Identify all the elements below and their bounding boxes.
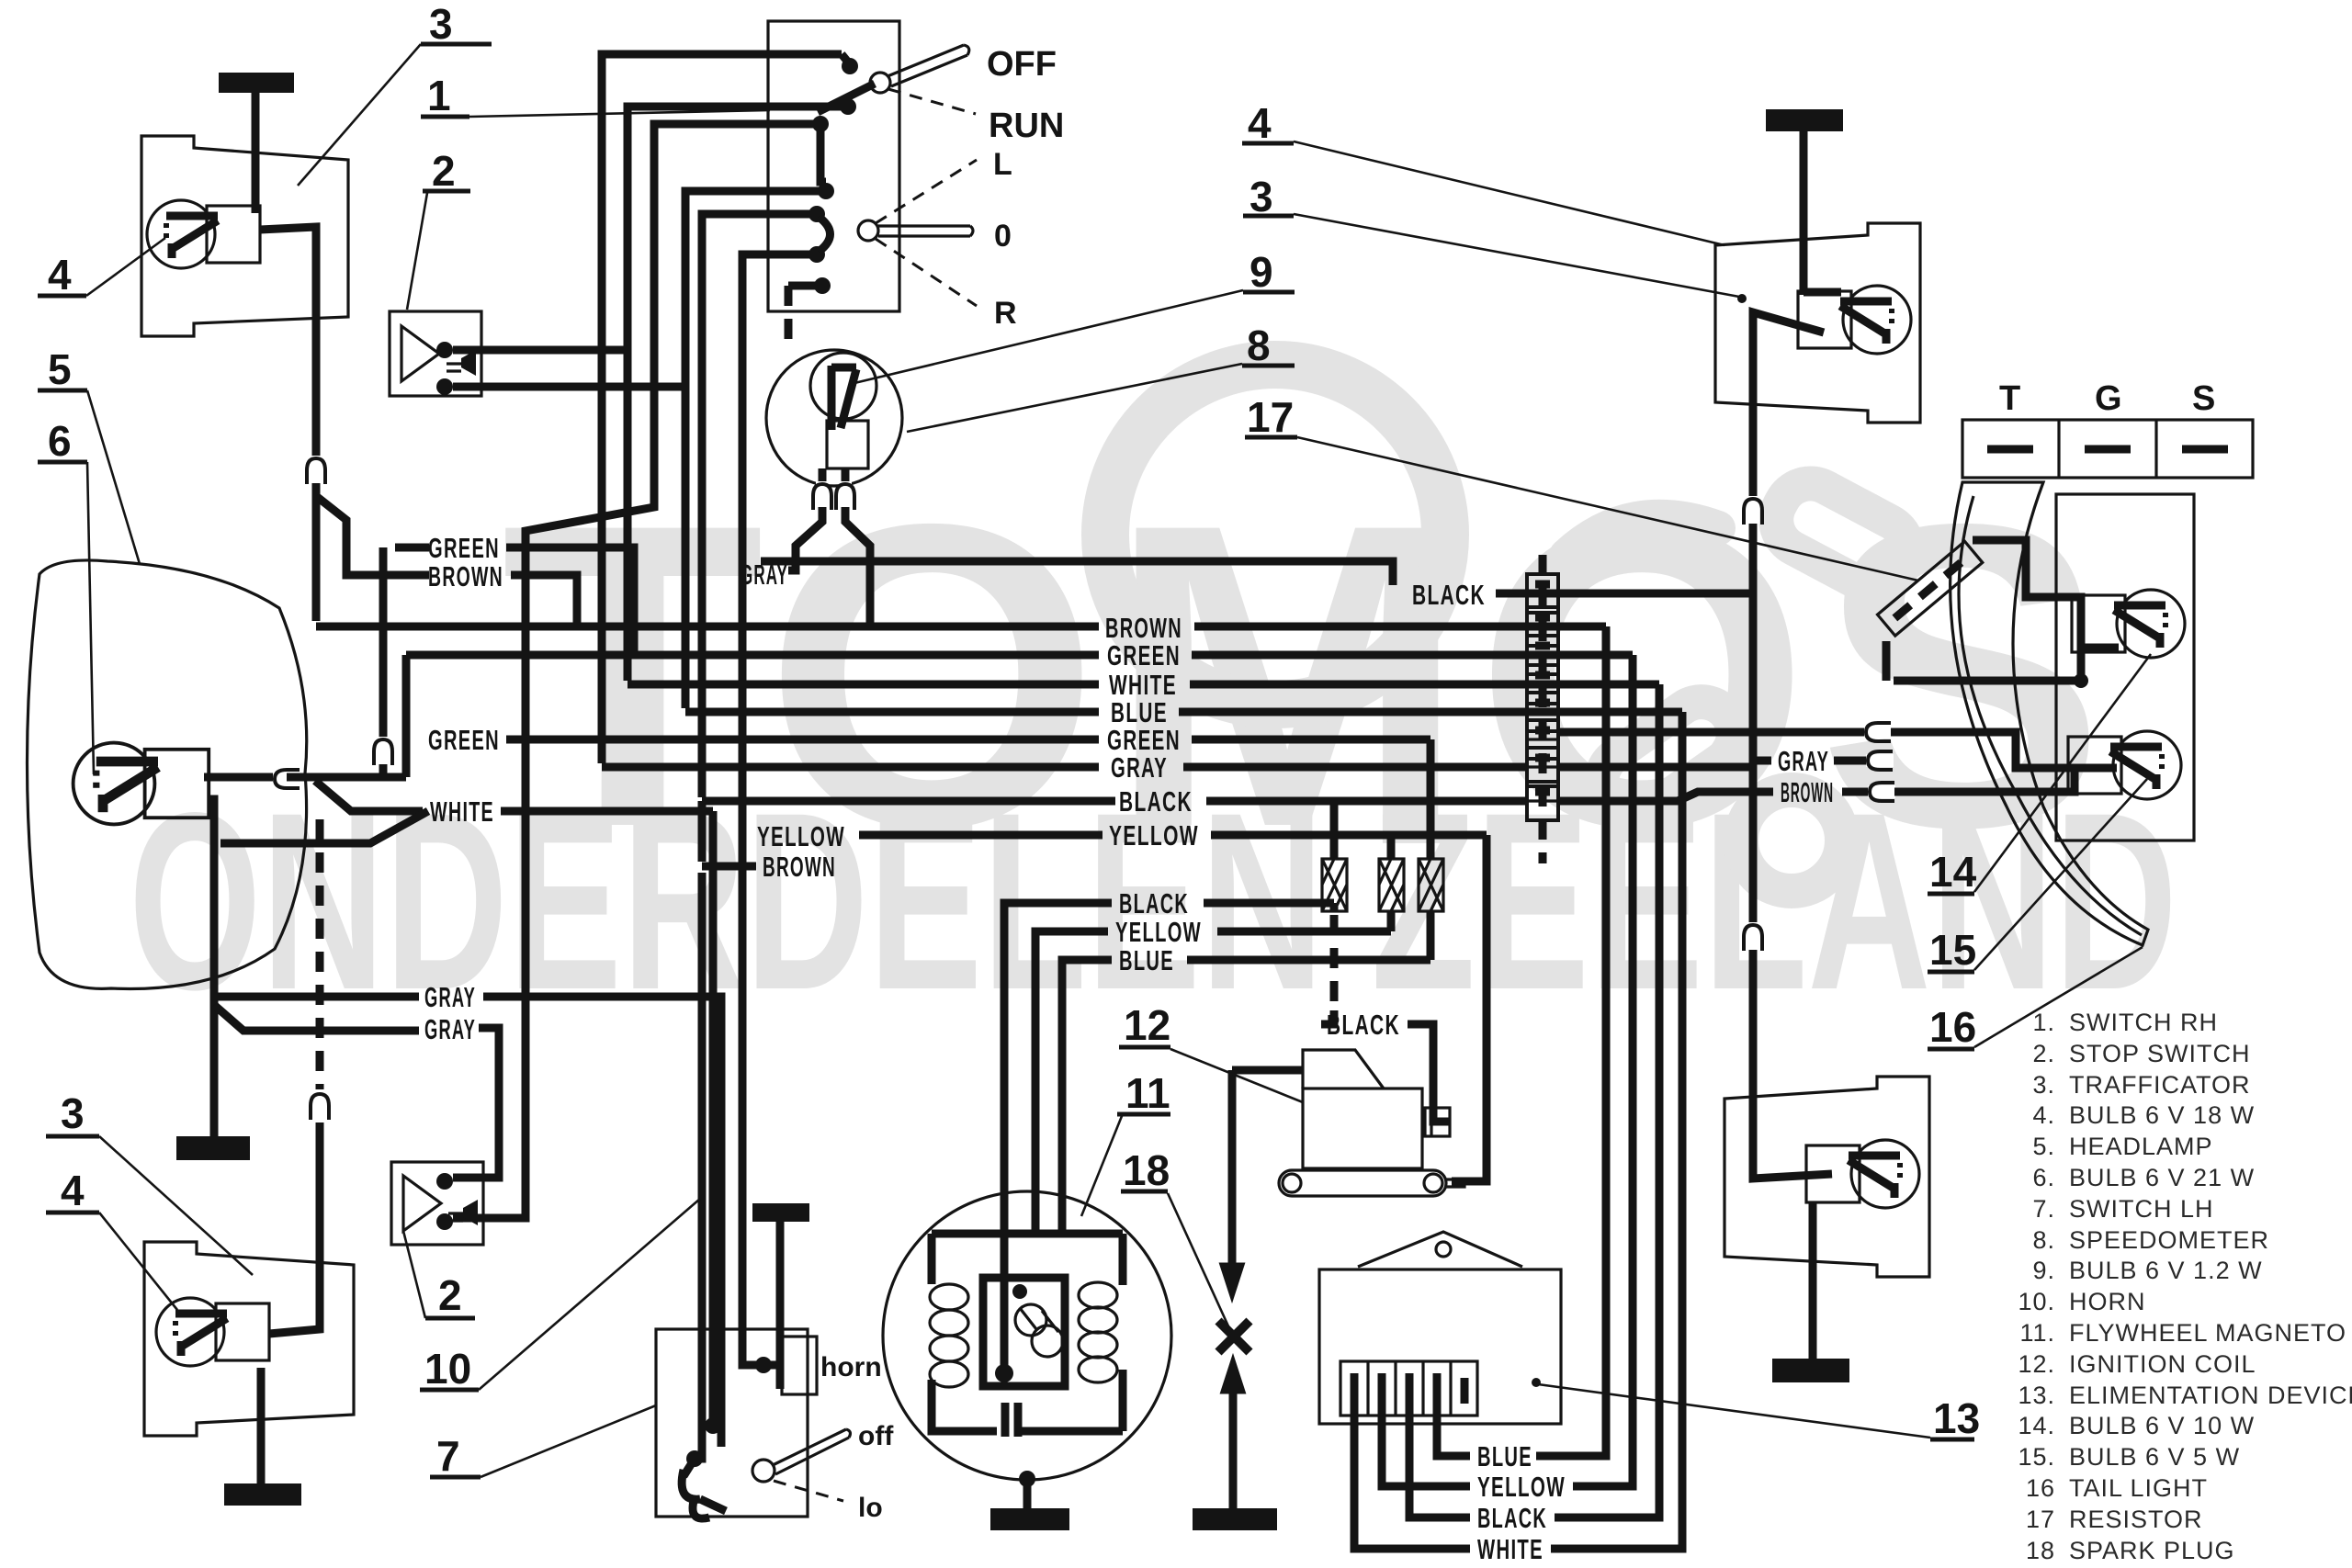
bulb 4 (6V 18W, front-left trafficator) (147, 200, 260, 268)
svg-text:T: T (1999, 379, 2020, 418)
bulb 4 (rear-right trafficator) (1806, 1140, 1919, 1208)
connector T G S box (1962, 420, 2253, 478)
wire right drop 1 (blue feed) (1536, 626, 1606, 1456)
wire blue magneto lead (1062, 960, 1112, 1234)
svg-text:HORN: HORN (2069, 1288, 2146, 1315)
bulb 9 (6V 1.2W speedometer) (810, 353, 876, 419)
svg-text:SWITCH RH: SWITCH RH (2069, 1009, 2218, 1036)
switch RH 1 box (768, 21, 899, 311)
svg-text:L: L (993, 147, 1012, 182)
wire tail feed upper (1559, 728, 1867, 737)
watermark gear ring (1105, 365, 1445, 705)
wire dashed feed to rear-left trafficator (316, 819, 324, 1089)
stop switch 2 horn symbol (401, 326, 439, 381)
contact dots switch RH (842, 58, 858, 74)
svg-text:BLUE: BLUE (1119, 944, 1174, 976)
bulb 6 (6V 21W headlamp) (73, 743, 209, 825)
wire headlamp diagonal branch to white (315, 781, 423, 811)
connector lug tail upper (1864, 726, 1892, 739)
svg-text:17: 17 (1247, 393, 1294, 441)
wire green-2 bus (506, 736, 1099, 744)
connector column dashed line (1539, 555, 1547, 863)
svg-text:13.: 13. (2018, 1382, 2055, 1409)
svg-text:G: G (2095, 379, 2122, 418)
magneto stator frame (932, 1234, 1123, 1285)
connector lug on headlamp wire (273, 773, 300, 785)
wire black bus (702, 797, 1115, 806)
stop switch 2 (rear) box (391, 1162, 483, 1245)
svg-text:SWITCH LH: SWITCH LH (2069, 1195, 2214, 1223)
ignition coil 12 body (1303, 1089, 1422, 1168)
wire black bus right (1206, 797, 1526, 806)
svg-text:HEADLAMP: HEADLAMP (2069, 1133, 2213, 1160)
wire contact7 to speedometer (788, 282, 818, 290)
wire clip right column lower (1747, 922, 1759, 950)
connector lug tail brown (1868, 785, 1895, 798)
svg-text:TRAFFICATOR: TRAFFICATOR (2069, 1071, 2251, 1099)
wire black elim right (1555, 1514, 1659, 1522)
svg-text:5.: 5. (2032, 1133, 2055, 1160)
wire black coil elbow (1321, 1010, 1334, 1024)
wire black right to connector (1496, 590, 1755, 598)
watermark doodles (1566, 472, 1919, 891)
svg-text:3.: 3. (2032, 1071, 2055, 1099)
wire gray-2 right (453, 1028, 499, 1178)
wire yellow bus right (1211, 831, 1487, 840)
lever lights (thick arc) (819, 217, 831, 252)
svg-text:TAIL LIGHT: TAIL LIGHT (2069, 1474, 2208, 1502)
wire white elim right (1551, 1545, 1682, 1553)
svg-text:3: 3 (1249, 173, 1273, 220)
connector plug gray (1527, 748, 1558, 786)
svg-text:BLACK: BLACK (1477, 1502, 1547, 1534)
svg-text:4: 4 (1248, 99, 1272, 147)
wire tail lamp harness (1894, 540, 2081, 681)
svg-text:BROWN: BROWN (1781, 776, 1834, 808)
wire contact2 to white bus (628, 107, 843, 681)
ignition coil bracket (1279, 1170, 1446, 1196)
svg-text:WHITE: WHITE (1477, 1533, 1543, 1565)
connector plug black (1527, 574, 1558, 613)
capacitor (1001, 1403, 1010, 1437)
wire white-vert to switch LH (709, 811, 718, 1426)
svg-text:IGNITION COIL: IGNITION COIL (2069, 1350, 2256, 1378)
svg-text:2: 2 (438, 1271, 462, 1319)
svg-text:11.: 11. (2019, 1319, 2055, 1347)
hatched connector 3 (1419, 859, 1443, 911)
trafficator 3 (front right) housing (1715, 223, 1920, 423)
connector plug white (1527, 665, 1558, 704)
svg-text:BLUE: BLUE (1477, 1440, 1532, 1472)
wire gray bus far right (1559, 763, 1755, 772)
wire gray-2 diagonal (214, 1005, 419, 1031)
wire coil primary feed (1232, 1066, 1303, 1075)
wire headlamp green join (402, 655, 411, 777)
svg-text:YELLOW: YELLOW (1109, 819, 1199, 852)
wire speedometer right prong to brown bus (845, 507, 870, 623)
svg-text:ELIMENTATION DEVICE: ELIMENTATION DEVICE (2069, 1382, 2352, 1409)
lever handle lower (to 0) (878, 226, 973, 236)
wire pin3 to BLACK (1409, 1444, 1470, 1517)
wire headlamp main down lead (208, 799, 214, 1138)
svg-text:YELLOW: YELLOW (1115, 916, 1202, 948)
wire right drop 4 (white feed) (1551, 712, 1682, 1549)
wire coil to elimination (1452, 835, 1487, 1181)
svg-text:2: 2 (432, 147, 456, 195)
trafficator 3 (front left) housing (141, 136, 348, 336)
svg-text:BULB 6 V 21 W: BULB 6 V 21 W (2069, 1164, 2255, 1191)
wire black coil right (1408, 1024, 1449, 1122)
svg-text:horn: horn (820, 1352, 882, 1382)
svg-text:10: 10 (424, 1345, 471, 1393)
dashed pointer to R (876, 239, 977, 306)
svg-text:6: 6 (48, 417, 72, 465)
svg-text:GRAY: GRAY (1778, 745, 1829, 777)
wire right drop 3 (black feed) (1555, 684, 1659, 1517)
hatched connector 1 (1322, 859, 1347, 911)
wire gray-1 line (214, 993, 419, 1001)
svg-text:17: 17 (2026, 1506, 2055, 1533)
svg-text:9: 9 (1249, 248, 1273, 296)
stop switch 2 contacts (436, 342, 453, 358)
connector lug tail gray (1866, 754, 1894, 767)
svg-text:R: R (994, 296, 1017, 331)
wire green-2 bus right (1192, 736, 1430, 744)
svg-text:BULB 6 V 18 W: BULB 6 V 18 W (2069, 1101, 2255, 1129)
tail light 16 lens (1951, 482, 2148, 945)
breaker cam (1015, 1304, 1046, 1336)
svg-text:14: 14 (1929, 848, 1977, 896)
wire drop blue (1427, 739, 1435, 859)
wire gray bus (602, 763, 1099, 772)
wire contact6 to yellow and horn (742, 254, 812, 1365)
dashed pointer to RUN (888, 89, 976, 114)
pivot circle upper lever (870, 73, 890, 93)
svg-text:off: off (858, 1421, 894, 1451)
wire clip on trafficator-3 feed (310, 456, 322, 483)
svg-text:BLACK: BLACK (1412, 579, 1486, 611)
svg-text:2.: 2. (2032, 1040, 2055, 1067)
svg-text:9.: 9. (2032, 1257, 2055, 1284)
connector plug black2 (1527, 782, 1558, 820)
stop switch 2 (front) box (390, 311, 481, 396)
ground symbol (headlamp lead) (176, 1136, 250, 1160)
switch LH pivot (752, 1460, 775, 1482)
wire white bus (628, 681, 1099, 689)
svg-text:RUN: RUN (989, 107, 1064, 145)
svg-text:7: 7 (436, 1432, 460, 1480)
connector T G S pins (1987, 446, 2033, 454)
svg-text:12: 12 (1124, 1001, 1170, 1049)
svg-text:GREEN: GREEN (428, 724, 500, 756)
svg-text:7.: 7. (2032, 1195, 2055, 1223)
svg-text:0: 0 (994, 219, 1012, 254)
wire green-vert headlamp (379, 547, 388, 740)
wire contact5 to black bus (702, 214, 812, 797)
svg-text:GREEN: GREEN (1107, 639, 1181, 671)
svg-text:8.: 8. (2032, 1226, 2055, 1254)
svg-text:BLACK: BLACK (1327, 1009, 1400, 1041)
stop switch 2 rear horn symbol (403, 1176, 441, 1231)
svg-text:15.: 15. (2018, 1443, 2055, 1471)
svg-text:12.: 12. (2018, 1350, 2055, 1378)
svg-text:S: S (2192, 379, 2215, 418)
connector plug green (1527, 636, 1558, 674)
svg-text:6.: 6. (2032, 1164, 2055, 1191)
speedometer 8 dial (766, 350, 902, 486)
wire blue elim right (1536, 1452, 1606, 1461)
svg-text:13: 13 (1933, 1394, 1980, 1442)
wire stop-switch-2 upper contact (453, 346, 628, 355)
connector plug green2 (1527, 720, 1558, 759)
wire dashed black coil (1330, 915, 1339, 1010)
svg-text:BLACK: BLACK (1119, 785, 1193, 818)
wire pin2 to YELLOW (1382, 1444, 1470, 1486)
svg-text:GRAY: GRAY (424, 1013, 476, 1045)
trafficator 3 (rear right) housing (1724, 1077, 1929, 1277)
wire black-brown link to tail (1559, 792, 1773, 801)
speedometer prongs (819, 468, 827, 487)
ground symbol (horn) (752, 1203, 809, 1222)
svg-text:GRAY: GRAY (1111, 751, 1168, 784)
wire blue bus (685, 708, 1099, 716)
switch LH lever blob (684, 1459, 695, 1476)
svg-text:18: 18 (2026, 1537, 2055, 1564)
wire green bus right (1192, 651, 1633, 660)
elimentation device terminal block (1340, 1361, 1477, 1416)
svg-text:1: 1 (427, 72, 451, 119)
svg-text:STOP SWITCH: STOP SWITCH (2069, 1040, 2251, 1067)
svg-text:14.: 14. (2018, 1412, 2055, 1439)
svg-text:11: 11 (1125, 1069, 1170, 1117)
wire green label lead (395, 544, 429, 552)
svg-text:YELLOW: YELLOW (757, 820, 845, 852)
bulb 14 (6V 10W tail) (2072, 590, 2185, 658)
svg-text:GRAY: GRAY (424, 981, 476, 1013)
wire brown-left lead (702, 863, 756, 871)
tail light 16 bracket (2056, 494, 2194, 840)
wire gray tail (1753, 757, 1771, 765)
hatched connector 2 (1379, 859, 1404, 911)
svg-text:OFF: OFF (987, 45, 1057, 84)
wire clip green-vert (377, 737, 390, 764)
spark plug ground (1193, 1508, 1277, 1530)
svg-text:YELLOW: YELLOW (1477, 1471, 1566, 1503)
ground symbol (top-left trafficator) (219, 73, 294, 93)
wire black magneto lead (1004, 903, 1112, 1286)
wire blue bus right (1179, 708, 1682, 716)
svg-text:18: 18 (1123, 1146, 1170, 1194)
wire brown bus right (1194, 623, 1606, 631)
wire gray bus right (1183, 763, 1526, 772)
wire pin1 to WHITE (1354, 1444, 1470, 1549)
ground symbol (rear-right trafficator) (1772, 1359, 1849, 1382)
wire brown tail (1842, 788, 1871, 796)
svg-text:FLYWHEEL MAGNETO: FLYWHEEL MAGNETO (2069, 1319, 2346, 1347)
wire black vert continues (698, 801, 707, 862)
svg-text:WHITE: WHITE (430, 795, 494, 828)
wire brown label lead (316, 496, 429, 575)
svg-text:SPEEDOMETER: SPEEDOMETER (2069, 1226, 2269, 1254)
svg-text:8: 8 (1247, 321, 1271, 369)
connector plug brown (1527, 607, 1558, 646)
switch LH contacts (705, 1417, 721, 1434)
ground symbol (rear-left trafficator) (224, 1483, 301, 1506)
svg-text:RESISTOR: RESISTOR (2069, 1506, 2203, 1533)
wire brown bus (316, 623, 1099, 631)
wire right trafficator to tail-light column (1753, 312, 1824, 1168)
wire pin4 to BLUE (1437, 1444, 1470, 1456)
wire brown-left down (695, 873, 702, 1459)
stop switch 2 rear contacts (436, 1173, 453, 1190)
spark plug 18 gap (1218, 1321, 1249, 1352)
wire ground stem into right trafficator bulb (1804, 288, 1841, 297)
dashed pointer lo (774, 1481, 843, 1501)
svg-text:15: 15 (1929, 926, 1976, 974)
ground symbol (top-right trafficator) (1766, 109, 1843, 131)
magneto coil left (930, 1284, 968, 1310)
wire stop-switch-2 lower contact (453, 383, 685, 391)
wire white label leads (220, 811, 428, 843)
wire black upper-right run (761, 561, 1393, 585)
svg-text:1.: 1. (2032, 1009, 2055, 1036)
switch LH 7 box (656, 1329, 808, 1517)
wire green bus (406, 651, 1099, 660)
svg-text:GREEN: GREEN (428, 532, 500, 564)
wire clip rear-left feed (313, 1091, 326, 1119)
svg-text:5: 5 (48, 345, 72, 393)
bulb 15 (6V 5W tail) (2068, 731, 2181, 799)
wire right drop 2 (yellow feed) (1573, 655, 1633, 1486)
svg-text:BULB 6 V 10 W: BULB 6 V 10 W (2069, 1412, 2255, 1439)
magneto coil right (1079, 1282, 1117, 1308)
arrow down to spark gap (1222, 1265, 1242, 1296)
contact breaker (1001, 1286, 1009, 1374)
wire contact4 to blue bus (685, 191, 821, 708)
switch LH handle (off) (773, 1429, 850, 1474)
svg-text:SPARK PLUG: SPARK PLUG (2069, 1537, 2235, 1564)
horn 10 box (782, 1337, 817, 1394)
wire trafficator-3 feed to brown bus (260, 227, 316, 621)
wire yellow magneto lead (1035, 931, 1108, 1234)
svg-text:BROWN: BROWN (428, 560, 503, 592)
svg-text:4: 4 (48, 251, 72, 299)
wire into rear-right bulb (1753, 1168, 1832, 1179)
flywheel magneto 11 rim (883, 1191, 1171, 1480)
wire horn feed (755, 1357, 772, 1373)
magneto points frame (983, 1278, 1065, 1386)
ignition coil bolt (1425, 1108, 1450, 1136)
svg-text:3: 3 (61, 1089, 85, 1137)
headlamp 5 shell (28, 560, 307, 989)
elimentation device roof (1358, 1232, 1522, 1267)
pivot circle lower lever (858, 220, 878, 241)
resistor 17 (1878, 541, 1983, 636)
wire gray-1 right (483, 997, 721, 1447)
svg-text:4.: 4. (2032, 1101, 2055, 1129)
wire speedometer left prong to gray (788, 507, 822, 570)
wire drop black (1330, 801, 1339, 859)
svg-text:4: 4 (61, 1167, 85, 1214)
wire rear-left feed lower (269, 1122, 320, 1334)
wire yellow link (859, 831, 1102, 840)
svg-text:3: 3 (429, 0, 453, 48)
svg-text:BULB 6 V 1.2 W: BULB 6 V 1.2 W (2069, 1257, 2263, 1284)
wire drop yellow (1387, 835, 1396, 859)
trafficator 3 (rear left) housing (144, 1242, 354, 1436)
wire switch top to gray bus (602, 54, 842, 763)
svg-text:lo: lo (858, 1493, 883, 1523)
wire contact3 long vertical (453, 124, 816, 1218)
svg-text:BLACK: BLACK (1119, 887, 1189, 919)
elimentation device 13 box (1319, 1269, 1561, 1424)
wire coil HT lead to spark plug (1228, 1070, 1237, 1271)
connector plug blue (1527, 693, 1558, 731)
bulb 4 (rear-left trafficator) (156, 1298, 269, 1366)
magneto ground (1019, 1471, 1035, 1487)
lever handle upper (to OFF) (888, 45, 969, 86)
wire clip right column upper (1747, 496, 1759, 524)
terminal pins (1351, 1373, 1359, 1444)
dashed pointer to L (876, 160, 977, 223)
switch RH internal link (820, 130, 826, 182)
wire yellow elim right (1573, 1483, 1633, 1491)
svg-text:10.: 10. (2018, 1288, 2055, 1315)
arrow up from ground (1223, 1360, 1243, 1392)
lever OFF-RUN (thick) (818, 84, 875, 112)
svg-text:BROWN: BROWN (763, 851, 836, 883)
wire headlamp bulb output (204, 773, 406, 782)
svg-text:BULB 6 V 5 W: BULB 6 V 5 W (2069, 1443, 2240, 1471)
svg-text:16: 16 (2026, 1474, 2055, 1502)
wire dashed into speedometer (785, 286, 793, 349)
svg-text:16: 16 (1929, 1003, 1976, 1051)
wire white bus right (1190, 681, 1659, 689)
bulb 4 (front-right trafficator) (1798, 286, 1911, 354)
